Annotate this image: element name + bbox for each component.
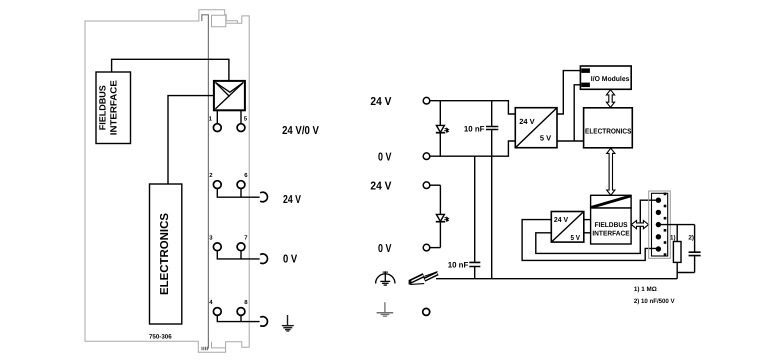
svg-text:ELECTRONICS: ELECTRONICS [159,213,171,295]
svg-text:4: 4 [209,299,213,306]
svg-text:I/O Modules: I/O Modules [591,75,630,83]
svg-text:24 V: 24 V [519,117,534,126]
svg-text:7: 7 [244,234,248,241]
svg-text:10 nF: 10 nF [464,125,485,134]
svg-text:FIELDBUS: FIELDBUS [595,222,628,229]
svg-text:FIELDBUS: FIELDBUS [97,85,107,130]
svg-text:2: 2 [209,172,213,179]
svg-text:24 V: 24 V [370,96,391,108]
svg-text:24 V: 24 V [370,181,391,193]
svg-text:24 V: 24 V [554,215,568,224]
svg-text:24 V: 24 V [283,194,301,206]
svg-text:8: 8 [244,299,248,306]
svg-text:6: 6 [244,172,248,179]
svg-text:1) 1 MΩ: 1) 1 MΩ [634,286,657,293]
svg-text:750-306: 750-306 [149,334,172,341]
svg-text:24 V/0 V: 24 V/0 V [282,125,319,137]
svg-text:2): 2) [688,234,694,241]
svg-text:ELECTRONICS: ELECTRONICS [585,126,632,135]
svg-text:5 V: 5 V [571,233,581,242]
svg-text:5 V: 5 V [540,133,551,142]
svg-text:0 V: 0 V [378,243,392,255]
svg-text:2) 10 nF/500 V: 2) 10 nF/500 V [634,298,675,305]
svg-text:INTERFACE: INTERFACE [592,230,630,237]
svg-text:0 V: 0 V [378,151,392,163]
svg-text:INTERFACE: INTERFACE [108,80,118,135]
svg-text:5: 5 [244,115,248,122]
svg-text:1): 1) [670,234,676,241]
svg-text:10 nF: 10 nF [448,260,469,269]
svg-text:1: 1 [209,115,213,122]
svg-text:3: 3 [209,234,213,241]
svg-text:0 V: 0 V [283,254,297,266]
